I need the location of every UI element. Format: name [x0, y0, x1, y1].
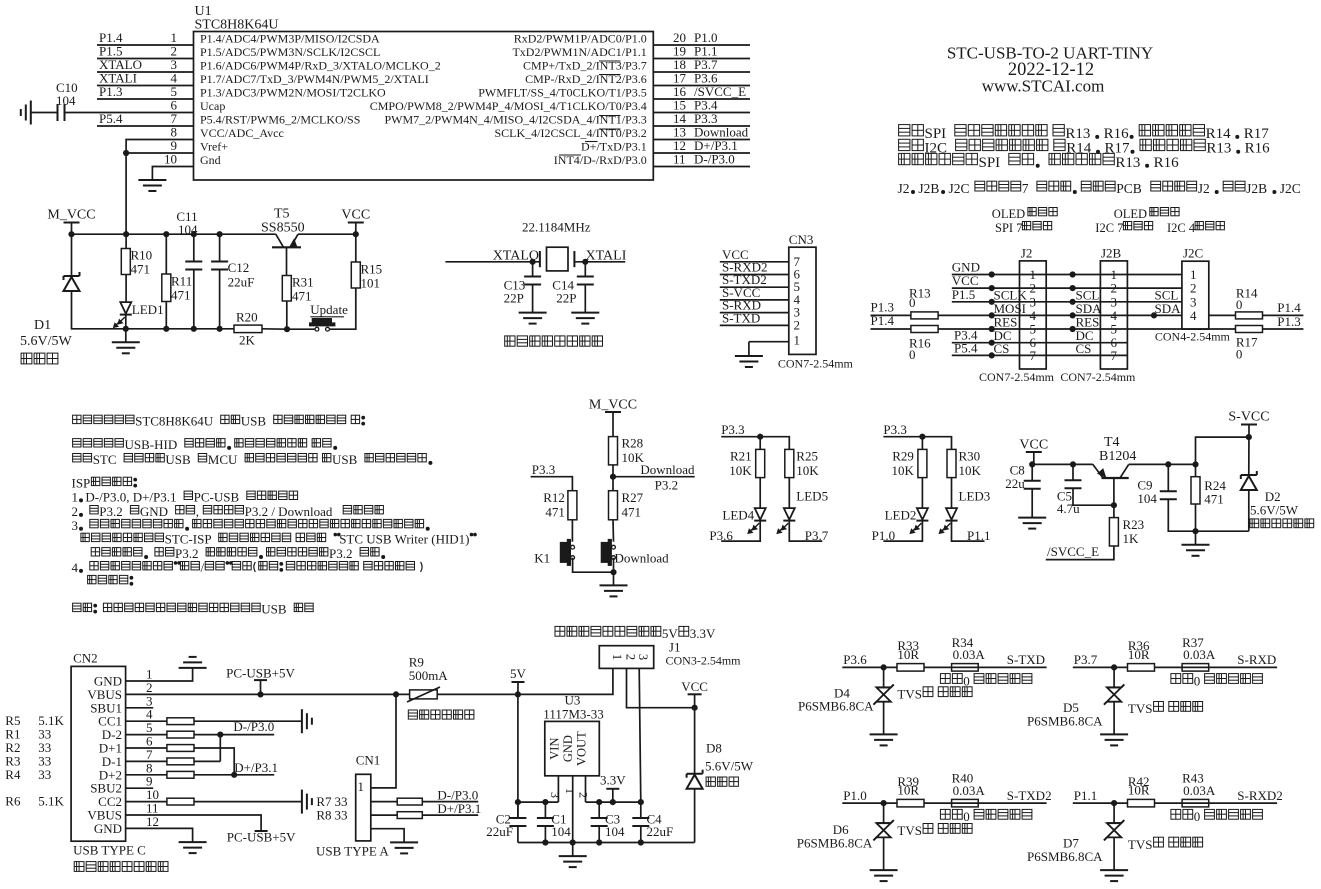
wire 5V rail [437, 668, 613, 694]
svg-text:P3.3: P3.3 [532, 462, 555, 477]
wire CN3 pin 7 [720, 261, 789, 263]
svg-text:5.1K: 5.1K [38, 794, 64, 809]
junction [164, 232, 169, 237]
wire P3.7 line [1073, 666, 1277, 668]
svg-text:33: 33 [335, 808, 348, 823]
wire 5V node line [517, 694, 519, 818]
TVS diode D6 [876, 822, 890, 824]
wire D5 top [1113, 667, 1115, 687]
svg-text:S-TXD2: S-TXD2 [1007, 788, 1052, 803]
svg-text:R29: R29 [892, 449, 914, 464]
svg-text:I2C 7: I2C 7 [1095, 221, 1123, 235]
wire gnd stub [1195, 531, 1197, 545]
svg-text:0: 0 [1194, 673, 1201, 688]
svg-text:USB-HID: USB-HID [125, 437, 178, 452]
svg-text:0: 0 [963, 673, 970, 688]
TVS diode D4 [876, 686, 890, 688]
switch K1 [560, 542, 567, 562]
resistor R6 [167, 798, 194, 805]
overline INT2 [599, 74, 621, 76]
wire C12 col [219, 234, 221, 261]
svg-text:33: 33 [38, 767, 51, 782]
svg-text:1: 1 [358, 779, 365, 794]
svg-text:VCC: VCC [341, 208, 370, 223]
svg-text:0: 0 [909, 347, 916, 362]
wire C5 to base [1073, 488, 1114, 505]
junction [124, 150, 129, 155]
svg-text:P3.7: P3.7 [805, 528, 829, 543]
junction [758, 434, 763, 439]
wire CN1 gnd [371, 829, 404, 843]
resistor R21 [756, 449, 765, 477]
svg-text:D-/P3.0: D-/P3.0 [233, 719, 274, 734]
svg-text:R15: R15 [361, 262, 383, 277]
junction [881, 665, 886, 670]
D8 note [706, 777, 715, 786]
capacitor C4 [632, 817, 649, 819]
junction [164, 326, 169, 331]
svg-text:SCLK_4/I2CSCL_4/INT0/P3.2: SCLK_4/I2CSCL_4/INT0/P3.2 [494, 126, 646, 140]
svg-text:SS8550: SS8550 [261, 221, 305, 236]
wire pin 1 [97, 44, 194, 46]
junction [353, 232, 358, 237]
wire D1 bottom [72, 291, 126, 329]
svg-text:www.STCAI.com: www.STCAI.com [982, 77, 1105, 96]
svg-text:10K: 10K [892, 463, 915, 478]
svg-text:10K: 10K [729, 463, 752, 478]
wire CN3 gnd [748, 342, 750, 356]
svg-text:D1: D1 [34, 318, 51, 333]
svg-text:0.03A: 0.03A [953, 647, 986, 662]
svg-text:P1.6/ADC6/PWM4P/RxD_3/XTALO/MC: P1.6/ADC6/PWM4P/RxD_3/XTALO/MCLKO_2 [200, 59, 441, 73]
wire CN1 VBUS [371, 694, 396, 788]
resistor R28 [609, 437, 618, 465]
wire J1 pin3 to 3.3V [639, 668, 641, 802]
wire D1 top [71, 234, 73, 276]
svg-text:0: 0 [1236, 297, 1243, 312]
svg-text:4: 4 [1190, 308, 1197, 323]
power bar PC-USB+5V [255, 830, 268, 832]
power bar S-VCC [1241, 424, 1257, 426]
svg-text:R11: R11 [171, 274, 192, 289]
svg-text:471: 471 [292, 289, 312, 304]
svg-text:1: 1 [563, 788, 577, 794]
svg-text:STC: STC [93, 452, 117, 467]
wire LED5 to P3.7 [789, 521, 822, 542]
capacitor C11 [185, 261, 202, 263]
wire Download net [613, 476, 695, 478]
svg-text:D+/P3.1: D+/P3.1 [234, 760, 278, 775]
power bar M_VCC [64, 222, 80, 224]
wire CC1 [126, 720, 302, 722]
svg-text:J2C: J2C [949, 181, 970, 196]
svg-text:104: 104 [1137, 491, 1157, 506]
ground [571, 312, 599, 314]
svg-text:471: 471 [1204, 492, 1224, 507]
svg-text:R21: R21 [730, 449, 752, 464]
wire S-VCC col [1248, 425, 1250, 475]
wire D-2 [126, 734, 275, 736]
svg-text:STC USB Writer (HID1): STC USB Writer (HID1) [339, 532, 469, 547]
svg-text:SDA: SDA [1155, 301, 1182, 316]
svg-text:U3: U3 [565, 693, 581, 708]
svg-text:OLED: OLED [992, 207, 1025, 221]
svg-text:B1204: B1204 [1099, 449, 1136, 464]
svg-text:P5.4/RST/PWM6_2/MCLKO/SS: P5.4/RST/PWM6_2/MCLKO/SS [200, 113, 360, 127]
junction [123, 326, 128, 331]
ground [30, 101, 32, 125]
wire LED1 bottom [125, 315, 127, 343]
junction [217, 326, 222, 331]
wire C9 bottom [1168, 499, 1249, 531]
wire C13 gnd [532, 285, 534, 313]
wire pin 4 [97, 85, 194, 87]
svg-text:P3.3: P3.3 [883, 422, 906, 437]
connector J1 body [599, 646, 653, 669]
wire P3.3 to R12 [531, 477, 573, 491]
svg-text:R17: R17 [1244, 126, 1270, 142]
wire R14 to P1.4 [1263, 314, 1304, 316]
wire pin 16 [653, 98, 750, 100]
junction [191, 326, 196, 331]
svg-text:0.03A: 0.03A [1183, 783, 1216, 798]
svg-text:2K: 2K [239, 333, 256, 348]
svg-text:STC8H8K64U: STC8H8K64U [195, 18, 279, 33]
ground [519, 312, 547, 314]
wire GND stub [572, 776, 574, 856]
wire [65, 112, 194, 114]
svg-text:CON4-2.54mm: CON4-2.54mm [1155, 329, 1231, 343]
svg-text:Download: Download [640, 462, 695, 477]
resistor R11 [162, 274, 171, 302]
junction [611, 570, 616, 575]
capacitor C13 [524, 276, 541, 278]
resistor R1 [167, 731, 194, 738]
note 0 ohm alternative [1171, 809, 1181, 819]
wire SBU1 stub [126, 707, 154, 709]
wire C14 gnd [584, 285, 586, 313]
wire M_VCC stub [71, 223, 73, 235]
wire CN3 pin 3 [720, 312, 789, 314]
wire VCC col [694, 694, 696, 773]
capacitor C10 [57, 104, 59, 121]
wire MOSI/SDA line [938, 314, 1182, 316]
svg-text:10K: 10K [796, 463, 819, 478]
svg-text:104: 104 [56, 93, 76, 108]
note 0 ohm alternative [1171, 674, 1181, 684]
wire C14 col [584, 262, 586, 277]
svg-text:SPI 7: SPI 7 [995, 221, 1022, 235]
svg-text:22uF: 22uF [228, 275, 255, 290]
capacitor C1 [537, 817, 554, 819]
wire CN1 D+ [371, 814, 478, 816]
svg-text:USB TYPE A: USB TYPE A [316, 844, 389, 859]
wire switch left [287, 328, 315, 330]
svg-text:CMP-/RxD_2/INT2/P3.6: CMP-/RxD_2/INT2/P3.6 [525, 72, 647, 86]
svg-text:CN1: CN1 [356, 753, 381, 768]
svg-text:P1.0: P1.0 [843, 788, 866, 803]
svg-text:VIN: VIN [547, 737, 561, 759]
wire R15 bottom [329, 288, 356, 329]
wire C3 col [598, 802, 600, 818]
connector J2B body [1100, 261, 1127, 369]
wire D4 gnd [883, 702, 885, 735]
svg-text:P1.7/ADC7/TxD_3/PWM4N/PWM5_2/X: P1.7/ADC7/TxD_3/PWM4N/PWM5_2/XTALI [200, 72, 429, 86]
wire rail to T4 [1032, 463, 1093, 465]
svg-text:R30: R30 [959, 449, 981, 464]
wire R12 to K1 [571, 520, 573, 542]
wire C2 col [517, 802, 519, 818]
junction [393, 692, 398, 697]
wire pin 15 [653, 112, 750, 114]
note 0 ohm alternative [940, 809, 950, 819]
wire 3.3V stub [612, 789, 614, 802]
transistor T5 [272, 246, 301, 248]
resistor R2 [167, 745, 194, 752]
wire VIN stub [557, 776, 559, 802]
underline Update [310, 316, 344, 318]
switch Update button [310, 323, 335, 326]
svg-text:22P: 22P [504, 291, 524, 306]
wire node left [518, 801, 559, 803]
svg-text:471: 471 [622, 505, 642, 520]
ground [1182, 544, 1210, 546]
svg-text:D8: D8 [706, 741, 722, 756]
capacitor C12 [211, 261, 228, 263]
svg-text:USB: USB [241, 414, 267, 429]
overline INT1 [599, 115, 621, 117]
overline INT4 [559, 154, 581, 156]
svg-text:CON7-2.54mm: CON7-2.54mm [979, 370, 1055, 384]
junction [258, 692, 263, 697]
svg-text:104: 104 [551, 824, 571, 839]
junction [1070, 299, 1075, 304]
wire CN2 GND1 [126, 668, 193, 681]
ground [179, 667, 207, 669]
zener diode D2 [1241, 474, 1257, 476]
svg-text:J2C: J2C [1280, 181, 1301, 196]
svg-text:CMP+/TxD_2/INT3/P3.7: CMP+/TxD_2/INT3/P3.7 [523, 59, 647, 73]
junction [1070, 272, 1075, 277]
svg-text:LED3: LED3 [959, 489, 991, 504]
LED LED5 [784, 508, 795, 519]
svg-text:R8: R8 [316, 808, 331, 823]
wire RES line to R17 [938, 328, 1235, 330]
svg-text:10R: 10R [1128, 647, 1150, 662]
svg-text:CN2: CN2 [73, 651, 98, 666]
svg-text:R28: R28 [622, 436, 644, 451]
wire P1.1 line [1073, 802, 1277, 804]
svg-text:2: 2 [72, 504, 79, 519]
junction [1070, 462, 1075, 467]
wire C1 bottom [544, 826, 546, 842]
svg-text:ISP: ISP [72, 476, 91, 491]
resistor R25 [785, 449, 794, 477]
wire R30 col [951, 449, 953, 508]
junction [1151, 313, 1156, 318]
svg-text:0: 0 [963, 809, 970, 824]
wire R28 to node [612, 465, 614, 491]
wire node right [586, 801, 641, 803]
svg-text:J1: J1 [669, 640, 681, 655]
junction [1193, 529, 1198, 534]
svg-text:2: 2 [794, 317, 801, 332]
svg-text:1K: 1K [1123, 531, 1140, 546]
LED LED2 [917, 508, 928, 519]
wire C11 col [193, 234, 195, 261]
svg-text:TVS: TVS [897, 823, 922, 838]
wire C2 bottom [517, 826, 519, 842]
resistor R10 [121, 249, 130, 275]
ground [112, 341, 140, 343]
ground [870, 869, 898, 871]
svg-text:VCC: VCC [1019, 437, 1048, 452]
svg-text:3.3V: 3.3V [690, 626, 716, 641]
wire D+1 [126, 748, 235, 775]
wire pin 5 [97, 98, 194, 100]
svg-text:USB: USB [332, 452, 358, 467]
wire R25 col [788, 449, 790, 508]
svg-text:3: 3 [72, 518, 79, 533]
resistor R3 [167, 758, 194, 765]
junction [543, 840, 548, 845]
resistor R12 [568, 491, 577, 520]
wire C9 col [1167, 464, 1169, 491]
wire CN3 pin 5 [720, 286, 789, 288]
connector J2 body [1020, 261, 1047, 369]
wire RES line [871, 328, 911, 330]
fuse R34 [952, 664, 979, 672]
svg-text:0.03A: 0.03A [1183, 647, 1216, 662]
svg-text:P3.6: P3.6 [843, 652, 867, 667]
svg-text:P1.1: P1.1 [967, 528, 990, 543]
IC U3 body [545, 721, 600, 775]
zener diode D8 [687, 773, 703, 775]
wire C13 col [532, 262, 534, 277]
power bar M_VCC [605, 411, 621, 413]
svg-text:P3.3: P3.3 [721, 422, 744, 437]
svg-text:P1.0: P1.0 [872, 528, 895, 543]
svg-text:VCC/ADC_Avcc: VCC/ADC_Avcc [200, 126, 284, 140]
junction [217, 232, 222, 237]
wire top rail [72, 233, 276, 235]
svg-text:Vref+: Vref+ [200, 140, 228, 154]
svg-text:CON7-2.54mm: CON7-2.54mm [778, 356, 854, 370]
ground [390, 841, 418, 843]
svg-text:STC-ISP: STC-ISP [165, 532, 212, 547]
ISP instruction text [91, 548, 99, 556]
ground [1100, 733, 1128, 735]
junction [1070, 313, 1075, 318]
note SPI solder [899, 125, 910, 136]
svg-text:S-TXD: S-TXD [722, 310, 760, 325]
svg-text:/SVCC_E: /SVCC_E [1047, 544, 1099, 559]
svg-text:101: 101 [361, 276, 381, 291]
ground [735, 355, 763, 357]
resistor R30 [947, 449, 956, 477]
ISP instruction text [73, 439, 81, 447]
wire R24 wires [1195, 464, 1197, 531]
svg-text:P3.6: P3.6 [709, 528, 733, 543]
fuse R37 [1182, 664, 1209, 672]
svg-text:R6: R6 [5, 794, 21, 809]
junction [191, 232, 196, 237]
junction [597, 840, 602, 845]
power bar 3.3V [606, 788, 619, 790]
wire LED4 to P3.6 [721, 521, 760, 542]
capacitor C9 [1160, 490, 1177, 492]
svg-text:I2C: I2C [925, 141, 948, 157]
junction [610, 800, 615, 805]
svg-text:R16: R16 [1104, 126, 1130, 142]
junction [638, 840, 643, 845]
svg-text:CS: CS [994, 341, 1010, 356]
svg-text:R16: R16 [1154, 155, 1180, 171]
svg-text:R14: R14 [1066, 141, 1092, 157]
wire C12 bottom [219, 270, 221, 329]
wire PC-USB+5V tap [260, 680, 262, 694]
svg-text:2: 2 [577, 792, 591, 798]
svg-text:USB: USB [165, 452, 191, 467]
wire R10 col [125, 234, 127, 302]
wire C4 col [640, 802, 642, 818]
resistor R4 [167, 771, 194, 778]
svg-text:J2B: J2B [1101, 245, 1122, 260]
wire K1 bottom [573, 558, 614, 572]
svg-text:471: 471 [545, 505, 565, 520]
junction [989, 313, 994, 318]
ground [301, 709, 303, 733]
svg-text:LED5: LED5 [796, 489, 828, 504]
svg-text:R20: R20 [236, 310, 258, 325]
fuse R9 500mA body [410, 690, 438, 699]
capacitor C3 [591, 817, 608, 819]
junction [515, 800, 520, 805]
TVS diode D7 [1107, 822, 1121, 824]
wire D6 top [883, 803, 885, 823]
resistor R17 [1236, 326, 1263, 333]
svg-text:VOUT: VOUT [575, 731, 589, 766]
svg-text:T5: T5 [274, 207, 290, 222]
svg-text:D-/P3.0, D+/P3.1: D-/P3.0, D+/P3.1 [85, 489, 176, 504]
wire J2 GND line [952, 274, 1182, 276]
junction [881, 801, 886, 806]
svg-text:R13: R13 [1115, 155, 1140, 171]
junction [692, 705, 697, 710]
svg-text:R14: R14 [1206, 126, 1232, 142]
note resettable fuse [408, 710, 417, 719]
junction [1111, 503, 1116, 508]
svg-text:P3.2: P3.2 [99, 504, 122, 519]
svg-text:7: 7 [1022, 181, 1029, 196]
svg-text:104: 104 [605, 824, 625, 839]
wire P3.3 rail [883, 437, 951, 450]
wire CN1 D- [371, 801, 478, 803]
svg-text:P1.4/ADC4/PWM3P/MISO/I2CSDA: P1.4/ADC4/PWM3P/MISO/I2CSDA [200, 32, 380, 46]
svg-text:0.03A: 0.03A [953, 783, 986, 798]
junction [1193, 462, 1198, 467]
svg-text:R16: R16 [1245, 141, 1271, 157]
svg-text:CON7-2.54mm: CON7-2.54mm [1060, 370, 1136, 384]
svg-text:SPI: SPI [925, 126, 947, 142]
svg-text:4.7u: 4.7u [1057, 501, 1080, 516]
svg-text:22uF: 22uF [647, 824, 674, 839]
svg-text:R31: R31 [292, 275, 314, 290]
svg-text:0: 0 [1236, 346, 1243, 361]
junction [284, 327, 289, 332]
wire SCLK/SCL line [952, 301, 1182, 303]
svg-text:CMPO/PWM8_2/PWM4P_4/MOSI_4/T1C: CMPO/PWM8_2/PWM4P_4/MOSI_4/T1CLKO/T0/P3.… [370, 99, 647, 113]
